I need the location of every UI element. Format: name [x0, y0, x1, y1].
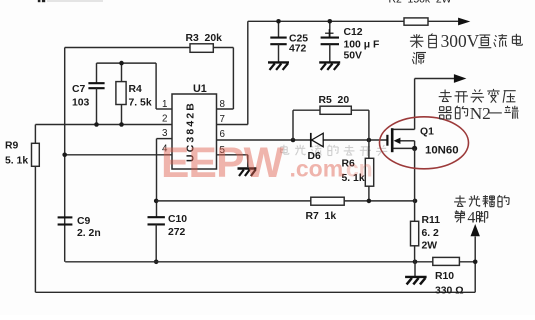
svg-text:7: 7 — [220, 114, 225, 125]
svg-text:C10: C10 — [168, 214, 187, 225]
svg-text:3: 3 — [162, 128, 168, 139]
svg-text:100 μ F: 100 μ F — [344, 40, 380, 51]
svg-text:2: 2 — [162, 114, 167, 125]
svg-text:300V: 300V — [441, 31, 480, 51]
svg-text:R11: R11 — [422, 215, 441, 226]
svg-text:8: 8 — [220, 99, 226, 110]
svg-text:2. 2n: 2. 2n — [77, 228, 101, 239]
svg-text:472: 472 — [289, 44, 307, 55]
svg-text:103: 103 — [72, 98, 90, 109]
svg-text:50V: 50V — [344, 50, 363, 61]
svg-text:C7: C7 — [72, 84, 86, 95]
svg-text:R9: R9 — [5, 141, 19, 152]
svg-text:.cn: .cn — [340, 156, 373, 182]
svg-text:330 Ω: 330 Ω — [435, 285, 464, 296]
svg-text:C9: C9 — [77, 216, 91, 227]
svg-text:5. 1k: 5. 1k — [5, 156, 28, 167]
svg-text:2W: 2W — [422, 240, 438, 251]
svg-text:R4: R4 — [129, 84, 143, 95]
svg-text:N2: N2 — [470, 104, 491, 123]
svg-text:10N60: 10N60 — [425, 145, 459, 157]
svg-text:R5 20: R5 20 — [319, 95, 350, 106]
svg-text:R2 150k 2W: R2 150k 2W — [389, 0, 452, 6]
svg-text:Q1: Q1 — [420, 127, 434, 138]
svg-text:7. 5k: 7. 5k — [129, 98, 152, 109]
svg-text:R10: R10 — [435, 271, 454, 282]
svg-text:.com: .com — [290, 156, 344, 182]
svg-text:EEPW: EEPW — [161, 140, 285, 187]
svg-text:6. 2: 6. 2 — [422, 228, 440, 239]
svg-text:272: 272 — [168, 227, 186, 238]
svg-text:U1: U1 — [193, 83, 207, 95]
svg-text:R3 20k: R3 20k — [186, 33, 223, 44]
svg-text:1: 1 — [162, 99, 167, 110]
svg-text:6: 6 — [220, 129, 226, 140]
svg-text:C12: C12 — [344, 27, 363, 38]
svg-text:4: 4 — [467, 209, 475, 226]
svg-text:R7 1k: R7 1k — [306, 211, 337, 222]
